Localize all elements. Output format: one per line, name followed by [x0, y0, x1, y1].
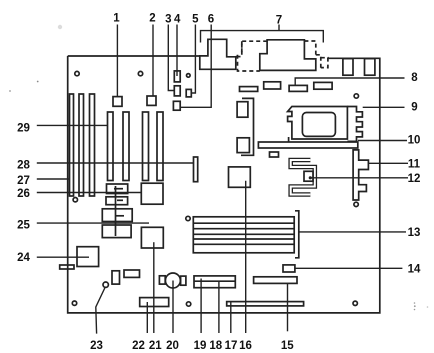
- small rect row D: [314, 82, 332, 89]
- jumper block J1: [113, 97, 122, 107]
- keyboard connector (solid T at top): [200, 39, 236, 69]
- long bar connector (item 17): [227, 302, 304, 306]
- mounting hole top-left: [75, 71, 79, 75]
- connector (item 22): [140, 298, 169, 307]
- leader 7: [278, 25, 280, 31]
- mounting hole top-right: [354, 94, 358, 98]
- PCI slot 1: [108, 112, 114, 181]
- speaker circle (item 23): [103, 282, 108, 287]
- scan speck 3: [9, 90, 11, 92]
- long horizontal bar (item 10): [258, 142, 357, 148]
- regulator square in serpentine: [304, 171, 313, 181]
- scan smudge right: [414, 302, 429, 310]
- svg-text:23: 23: [90, 340, 103, 352]
- cache chip 1: [237, 102, 248, 118]
- connector (item 15): [254, 277, 297, 284]
- tick in jumper A: [114, 188, 123, 190]
- leader 27: [37, 178, 70, 180]
- CPU socket outline: [288, 107, 348, 140]
- voltage regulator staircase (items 11/12): [353, 150, 368, 200]
- cache bracket: [241, 98, 254, 155]
- small rect row B: [264, 82, 281, 89]
- leader 18: [218, 282, 220, 333]
- chip (item 26): [141, 183, 163, 204]
- header bar (item 28): [194, 157, 198, 182]
- svg-text:9: 9: [411, 102, 417, 114]
- board outline: [68, 56, 380, 313]
- chip (item 24): [77, 247, 99, 267]
- IDE connector (items 18/19): [194, 276, 235, 288]
- battery (item 20): [159, 273, 186, 288]
- header rect item6: [173, 101, 180, 110]
- svg-text:3: 3: [165, 14, 171, 26]
- leader 3: [168, 25, 174, 91]
- header rect item3: [174, 86, 180, 96]
- leader 22: [146, 302, 148, 333]
- chip (item 16 target): [229, 167, 251, 187]
- tick in jumper C: [115, 215, 124, 217]
- mounting hole bottom-left: [72, 301, 76, 305]
- svg-text:22: 22: [132, 340, 145, 352]
- mounting hole mid-right: [354, 202, 358, 206]
- svg-text:20: 20: [166, 340, 179, 352]
- svg-text:13: 13: [408, 227, 421, 239]
- svg-text:4: 4: [174, 14, 181, 26]
- header square item5: [186, 89, 191, 97]
- svg-text:25: 25: [17, 220, 30, 232]
- PCI slot 3: [143, 112, 149, 181]
- small rect row C (item 8): [289, 85, 307, 91]
- svg-text:27: 27: [17, 175, 30, 187]
- leader 14: [295, 267, 403, 269]
- mounting hole bottom-right: [353, 301, 357, 305]
- svg-text:7: 7: [276, 15, 282, 27]
- USB stack connector 2: [365, 59, 375, 76]
- leader 1: [116, 25, 118, 97]
- PCI slot 2: [123, 112, 129, 181]
- ISA slot 2: [79, 94, 84, 196]
- svg-text:17: 17: [225, 340, 238, 352]
- svg-text:2: 2: [149, 13, 155, 25]
- scan speck 2: [37, 81, 39, 83]
- leader 5: [191, 25, 195, 94]
- dashed connector block (optional stacked connectors): [238, 41, 328, 71]
- leader 4: [176, 25, 178, 77]
- tick in jumper B: [117, 199, 123, 201]
- edge connector left: [60, 265, 74, 269]
- svg-text:16: 16: [239, 340, 252, 352]
- small rect row A: [240, 87, 258, 92]
- leader 17: [230, 302, 232, 333]
- svg-text:8: 8: [411, 72, 418, 84]
- leader 19: [200, 279, 202, 334]
- dashed block solid middle connector: [260, 40, 316, 71]
- mounting hole near jumpers: [187, 74, 191, 78]
- leader 21: [153, 242, 155, 333]
- leader 23: [96, 288, 105, 334]
- scan speck 1: [58, 25, 62, 29]
- small horizontal rect: [124, 270, 140, 277]
- mounting hole mid-left: [73, 198, 77, 202]
- leader 6: [180, 25, 211, 108]
- PCI slot 4: [157, 112, 163, 181]
- jumper chain line: [115, 186, 117, 236]
- jumper rect A: [107, 184, 128, 194]
- ISA slot 1: [70, 94, 74, 196]
- ISA slot 3: [90, 94, 95, 196]
- tick between socket and bar: [288, 137, 290, 142]
- memory bank (item 13): [193, 217, 294, 253]
- svg-text:26: 26: [17, 188, 30, 200]
- leader 15: [287, 283, 289, 331]
- USB stack connector 1: [343, 59, 353, 76]
- CPU die (rounded): [302, 113, 335, 137]
- svg-text:6: 6: [208, 14, 214, 26]
- memory bracket: [295, 211, 299, 258]
- svg-text:14: 14: [408, 263, 421, 275]
- svg-text:1: 1: [113, 13, 120, 25]
- leader 9: [363, 106, 405, 108]
- leader 12 dot: [309, 176, 312, 179]
- svg-text:24: 24: [17, 252, 30, 264]
- svg-text:19: 19: [194, 340, 207, 352]
- jumper rect D: [102, 225, 131, 238]
- svg-text:29: 29: [17, 123, 30, 135]
- small vertical rect: [112, 271, 120, 284]
- small rect below bar: [270, 152, 279, 157]
- bracket 7: [201, 31, 324, 43]
- jumper rect B: [106, 197, 128, 205]
- jumper rect C: [102, 209, 132, 222]
- svg-text:15: 15: [281, 340, 294, 352]
- serpentine trace (hollow): [291, 160, 315, 195]
- cache chip 2: [237, 138, 249, 153]
- mounting hole bottom-mid: [186, 302, 190, 306]
- leader 11: [368, 162, 408, 164]
- leader 13: [299, 231, 406, 233]
- small rect (item 14): [283, 265, 295, 272]
- leader 24: [37, 256, 89, 258]
- leader 8: [295, 78, 404, 85]
- CPU socket right band with teeth: [347, 107, 362, 142]
- leader 25: [37, 222, 149, 224]
- chip (item 25 square): [141, 227, 163, 248]
- svg-text:12: 12: [408, 173, 421, 185]
- header rect item4: [174, 71, 180, 82]
- leader 10: [358, 140, 407, 142]
- leader 26: [37, 192, 142, 194]
- jumper block J2: [147, 96, 156, 105]
- svg-text:21: 21: [149, 340, 162, 352]
- mounting hole left of memory: [186, 216, 190, 220]
- leader 29: [37, 124, 108, 126]
- leader 2: [152, 25, 154, 97]
- leader 12: [310, 177, 408, 179]
- leader 16: [245, 181, 247, 333]
- mounting hole top-mid: [138, 71, 142, 75]
- leader 20: [172, 281, 174, 334]
- svg-text:10: 10: [408, 135, 421, 147]
- svg-text:18: 18: [209, 340, 222, 352]
- svg-text:5: 5: [192, 14, 199, 26]
- leader 28: [37, 162, 194, 164]
- svg-text:28: 28: [17, 160, 30, 172]
- svg-text:11: 11: [408, 158, 421, 170]
